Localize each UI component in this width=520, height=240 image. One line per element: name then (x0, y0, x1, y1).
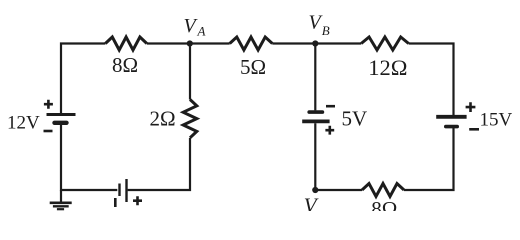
svg-text:V: V (304, 193, 319, 217)
wire bottom battery to 2ohm corner (128, 138, 190, 190)
battery V4 bottom short plate (118, 184, 120, 197)
plus sign 15V (466, 102, 476, 112)
wire top-left segment with left corner (61, 44, 105, 114)
wire ground stem (60, 190, 62, 202)
wire node C to 8ohm bottom (315, 189, 362, 191)
svg-text:8Ω: 8Ω (371, 197, 397, 221)
wire left below 12V battery to bottom battery (61, 125, 117, 190)
battery V3 15V short plate (446, 125, 457, 129)
battery V4 bottom long plate (125, 179, 127, 202)
battery V3 15V long plate (436, 115, 466, 119)
node B dot (312, 40, 318, 46)
plus sign 12V (44, 100, 53, 109)
resistor R1 8ohm zigzag (105, 37, 146, 50)
plus sign 5V (325, 126, 334, 135)
wire node B down to 5V battery (314, 44, 316, 111)
svg-text:B: B (322, 23, 330, 38)
battery V1 12V long plate (47, 113, 76, 116)
wire top-right segment with right corner (409, 44, 454, 116)
battery V2 5V long plate (302, 120, 329, 124)
svg-text:A: A (197, 24, 206, 39)
svg-text:12Ω: 12Ω (368, 55, 407, 80)
resistor R2 5ohm zigzag (230, 37, 273, 50)
wire bottom-right with corner up to 15V (404, 128, 454, 190)
svg-text:8Ω: 8Ω (112, 53, 138, 77)
node C dot (312, 187, 318, 193)
svg-text:5V: 5V (342, 106, 368, 130)
svg-text:5Ω: 5Ω (240, 55, 266, 79)
resistor R3 12ohm zigzag (361, 37, 408, 50)
resistor R5 8ohm bottom zigzag (362, 184, 404, 197)
minus sign 12V (44, 130, 53, 133)
svg-text:V: V (184, 15, 199, 37)
battery V1 12V short plate (55, 121, 67, 125)
resistor R4 2ohm vertical zigzag (183, 100, 197, 138)
wire top between 5ohm and 12ohm (272, 42, 361, 44)
ground (50, 203, 72, 209)
minus sign 15V (469, 128, 479, 131)
plus sign bottom battery (133, 196, 142, 205)
node A dot (187, 40, 193, 46)
minus sign bottom battery (rotated vertical) (114, 198, 117, 207)
wire node A down to 2ohm (189, 47, 191, 100)
svg-text:2Ω: 2Ω (150, 107, 176, 131)
minus sign 5V (326, 105, 335, 108)
svg-text:12V: 12V (7, 113, 40, 134)
wire 5V battery down to node C (314, 123, 316, 190)
battery V2 5V short plate (309, 110, 322, 114)
wire top between 8ohm and 5ohm (147, 42, 230, 44)
svg-text:15V: 15V (480, 110, 513, 131)
